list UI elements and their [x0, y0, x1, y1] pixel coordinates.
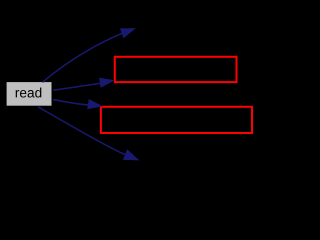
node box1 (truncated, red border): [115, 57, 237, 82]
edge arrow 1 (read -> top): [43, 28, 137, 82]
node box2 (truncated, red border): [101, 107, 252, 133]
edge arrow 3 (read -> box2): [53, 99, 103, 109]
edge arrow 2 (read -> box1): [53, 78, 115, 91]
node read: [7, 82, 52, 106]
edge arrow 4 (read -> bottom): [38, 107, 139, 161]
